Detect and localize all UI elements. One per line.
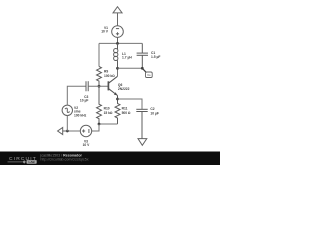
svg-text:10 µF: 10 µF — [150, 111, 159, 115]
node junction base R9/R10 — [98, 85, 101, 88]
wire V3 left to junction — [67, 130, 80, 132]
resistor R10 — [97, 86, 102, 124]
wire top rail — [99, 42, 142, 44]
label R10 15 kΩ — [104, 106, 113, 114]
wire V2 top to C3 — [67, 86, 86, 105]
label R11 500 Ω — [122, 106, 131, 114]
logo CircuitLab — [8, 156, 37, 164]
label V2 sine 100 kHz — [74, 106, 87, 118]
label L1 1.7 µH — [122, 52, 132, 60]
capacitor C3 — [86, 81, 88, 91]
wire down to V3 — [92, 124, 99, 131]
svg-text:1.7 µH: 1.7 µH — [122, 56, 132, 60]
svg-text:10 µF: 10 µF — [80, 99, 89, 103]
watermark bar — [0, 152, 220, 166]
label Q6 2N2222 — [118, 83, 130, 91]
node junction emitter — [116, 98, 119, 101]
svg-text:R11: R11 — [122, 106, 128, 110]
node junction V2/ground — [66, 130, 69, 133]
wire emitter to C2 — [118, 99, 143, 109]
node junction C1/Vo — [141, 67, 144, 70]
svg-text:R9: R9 — [104, 69, 108, 73]
label V3 10 V — [83, 139, 91, 147]
wire base C3 to Q6 — [88, 85, 108, 87]
voltage source V2 — [62, 105, 72, 115]
wire bottom rail R10-R11 — [99, 123, 118, 125]
resistor R11 — [115, 99, 120, 124]
node flag Vo — [142, 68, 152, 77]
svg-text:100 kHz: 100 kHz — [74, 113, 87, 117]
svg-text:LAB: LAB — [29, 160, 36, 164]
inductor L1 — [114, 43, 118, 68]
svg-text:R10: R10 — [104, 106, 110, 110]
ground right — [138, 139, 147, 146]
label V1 value 10 V — [101, 26, 109, 34]
label R9 100 kΩ — [104, 69, 115, 77]
node junction R10 bottom — [98, 123, 101, 126]
node junction V1/rail — [116, 42, 119, 45]
svg-text:Vo: Vo — [147, 73, 151, 77]
svg-text:10 V: 10 V — [83, 143, 91, 147]
resistor R9 — [97, 67, 102, 87]
svg-text:500 Ω: 500 Ω — [122, 111, 131, 115]
svg-text:100 kΩ: 100 kΩ — [104, 74, 115, 78]
capacitor C1 — [137, 43, 148, 68]
svg-text:1.5 µF: 1.5 µF — [151, 55, 160, 59]
svg-text:15 kΩ: 15 kΩ — [104, 111, 113, 115]
transistor Q6 — [108, 76, 117, 99]
voltage source V3 — [80, 125, 91, 136]
svg-text:2N2222: 2N2222 — [118, 87, 130, 91]
power flag VCC arrow — [113, 7, 122, 26]
capacitor C2 — [136, 109, 147, 138]
wire R9 top lead — [98, 43, 100, 66]
label C3 10 µF — [80, 95, 89, 103]
svg-text:http://circuitlab.com/c/zstqrc: http://circuitlab.com/c/zstqrc5x — [40, 158, 88, 162]
wire collector up — [117, 68, 119, 76]
node junction L1 bottom — [116, 67, 119, 70]
voltage source V1 — [112, 26, 124, 44]
label C1 1.5 µF — [151, 51, 160, 59]
ground left — [58, 128, 68, 135]
label C2 10 µF — [150, 107, 159, 115]
wire mid rail to C1 — [118, 67, 143, 69]
wire V2 bottom lead — [66, 116, 68, 132]
svg-text:10 V: 10 V — [101, 30, 109, 34]
